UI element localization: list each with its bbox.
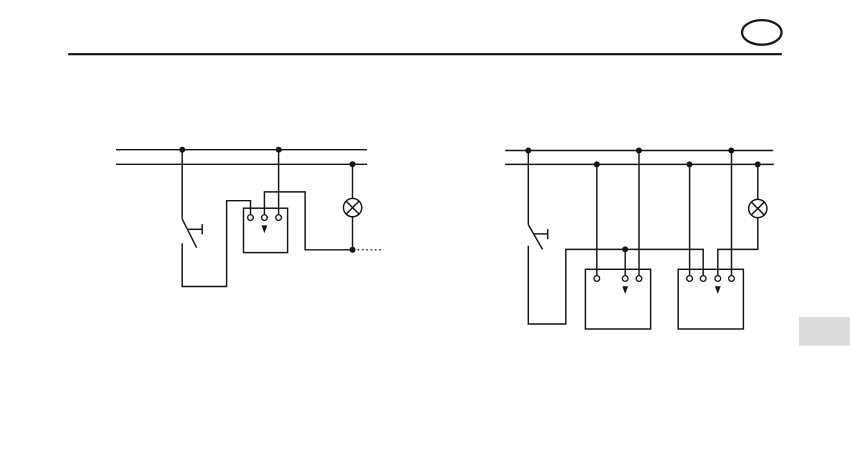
wire L to switch S2 [527,151,529,225]
wire switch S2 to dimmer bus and U3 terminal 2 [528,246,703,324]
wire dotted continuation [358,249,384,251]
U3 terminal 1 [687,276,693,282]
node L junction at U2 [636,148,642,154]
wire switch to dimmer U1 terminal 1 [182,201,250,287]
logo ellipse [742,20,782,45]
lamp E2 cross stroke 2 [751,202,764,215]
U3 terminal 4 [729,276,735,282]
switch S1 actuator bar [201,224,203,234]
wire L to U3 terminal 4 [731,151,733,276]
switch S1 actuator arm [188,228,202,230]
wire N to lamp E2 [757,164,759,199]
U3 terminal 2 [700,276,706,282]
node N junction at U3 [687,161,693,167]
U1 terminal 1 [248,215,254,221]
wire L bus left [116,149,367,151]
wire lamp E1 to return node [352,217,354,250]
wire N to lamp E1 [352,164,354,198]
wire L to U1 terminal 3 [278,150,280,215]
node N junction at U2 [594,161,600,167]
wire N to U2 terminal 1 [596,164,598,275]
U2 terminal 2 [622,276,628,282]
node N-lamp junction [350,161,356,167]
dimmer U1 body [244,208,288,252]
header rule [68,53,782,55]
U1 terminal 3 [276,215,282,221]
wire N to U3 terminal 1 [689,164,691,275]
wire L bus right [505,150,773,152]
switch S2 actuator bar [547,229,549,239]
node switched-phase junction [622,246,628,252]
wire L to switch S1 [181,150,183,219]
lamp E1 cross stroke 1 [346,201,359,214]
U2 terminal 1 [594,276,600,282]
wire N bus left [116,163,367,165]
wire L to U2 terminal 3 [638,151,640,276]
switch S1 blade [182,219,196,248]
dimmer U3 body [678,269,743,329]
wire N bus right [505,163,774,165]
U2 terminal 3 [636,276,642,282]
U1 arrow marker [262,225,268,233]
switch S2 blade [528,225,542,250]
node L junction at U3 [728,148,734,154]
node N junction at E2 [755,161,761,167]
page edge tab [799,317,850,346]
wire lamp E2 to U3 terminal 3 [718,218,758,276]
wire U1 terminal 2 to lamp return node [264,192,352,250]
node lamp return junction [350,247,356,253]
U3 arrow marker [715,286,721,294]
lamp E2 cross stroke 1 [751,202,764,215]
lamp E1 cross stroke 2 [346,201,359,214]
node L junction at S2 [525,148,531,154]
node L-switch junction [179,147,185,153]
U3 terminal 3 [715,276,721,282]
wire junction to U2 terminal 2 [624,249,626,275]
node L-dimmer junction [276,147,282,153]
lamp E2 circle [749,199,767,217]
U1 terminal 2 [262,215,268,221]
dimmer U2 body [585,269,650,329]
U2 arrow marker [622,286,628,294]
lamp E1 circle [343,198,361,216]
switch S2 actuator arm [534,233,548,235]
